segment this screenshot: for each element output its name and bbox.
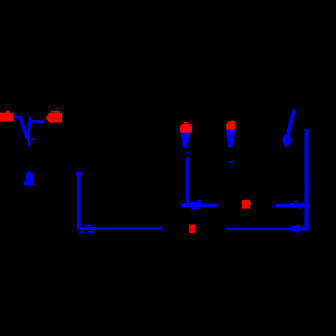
pencil stroke (slanted hand-drawn mark, top right) — [283, 111, 294, 147]
wire (upper horizontal, right segment) — [276, 204, 310, 207]
dash (below node D marker) — [229, 161, 232, 163]
arrow (current direction, upper horizontal, points right) — [190, 200, 202, 209]
node B (red terminal blob with top tick) — [46, 111, 63, 123]
wire (mid vertical, below node C marker) — [186, 152, 189, 206]
wire (from source V to node B) — [31, 120, 44, 122]
arrow (current direction, upper right, points right into vertical wire) — [291, 201, 305, 209]
blob at V convergence — [25, 134, 29, 140]
arrow (current direction, bottom right, points left) — [291, 225, 300, 233]
wire (left vertical) — [76, 172, 82, 230]
node D marker (red cap over blue cone, right) — [226, 120, 235, 147]
node C marker (red cap over blue cone, left) — [180, 122, 192, 148]
capacitor plate blob (small blue rectangle) — [24, 171, 34, 185]
voltage source V (hand-drawn V squiggle) — [20, 118, 34, 146]
wire (bottom horizontal, left segment) — [78, 227, 162, 230]
wire corner (bottom right, joins right vertical) — [296, 227, 309, 231]
wire (right vertical) — [305, 129, 311, 231]
node E (red blob on upper horizontal) — [242, 200, 251, 209]
node F (red blob on bottom wire) — [189, 225, 195, 234]
junction blob at mid vertical meets upper horizontal — [181, 203, 190, 207]
node A (red terminal blob, left edge) — [0, 111, 14, 122]
wire (bottom horizontal, right segment) — [226, 228, 305, 231]
wire (upper horizontal, left segment) — [181, 204, 217, 207]
arrow (current direction, bottom left, points right) — [79, 225, 96, 234]
wire (from node A to source V) — [13, 116, 21, 119]
